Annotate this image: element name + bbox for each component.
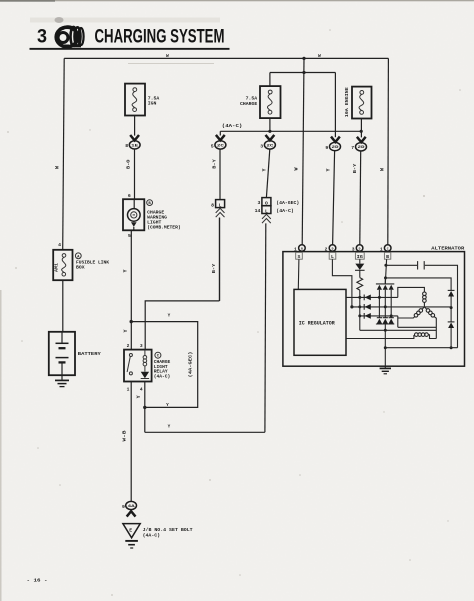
svg-text:Y: Y: [166, 403, 169, 408]
svg-text:Y: Y: [136, 395, 142, 398]
svg-text:B-Y: B-Y: [211, 264, 217, 274]
svg-text:5: 5: [128, 233, 131, 239]
svg-text:(4A-GEC): (4A-GEC): [276, 200, 299, 206]
svg-text:- 16 -: - 16 -: [27, 578, 48, 584]
svg-text:BOX: BOX: [76, 265, 85, 271]
svg-text:2C: 2C: [217, 144, 225, 148]
svg-text:(4A-GEC): (4A-GEC): [188, 351, 194, 377]
svg-text:W-B: W-B: [122, 430, 128, 441]
svg-text:B-O: B-O: [125, 159, 131, 169]
svg-text:Y: Y: [261, 168, 267, 171]
svg-text:2: 2: [127, 343, 130, 349]
svg-text:IC REGULATOR: IC REGULATOR: [299, 320, 335, 326]
svg-text:3: 3: [352, 246, 355, 252]
svg-text:W: W: [55, 166, 61, 169]
svg-text:(4A-C): (4A-C): [276, 208, 294, 214]
svg-text:4: 4: [140, 387, 143, 393]
svg-text:6: 6: [128, 193, 131, 199]
svg-text:4: 4: [58, 242, 61, 248]
svg-text:AM1: AM1: [55, 262, 59, 272]
svg-text:CHARGE: CHARGE: [240, 101, 257, 107]
svg-text:ALTERNATOR: ALTERNATOR: [431, 246, 464, 252]
svg-text:E: E: [129, 528, 132, 534]
svg-text:W: W: [294, 167, 300, 170]
svg-text:BATTERY: BATTERY: [78, 351, 101, 357]
svg-text:B: B: [301, 246, 303, 250]
svg-text:L: L: [265, 208, 268, 214]
svg-text:7: 7: [351, 145, 354, 151]
svg-text:7.5A: 7.5A: [246, 96, 258, 102]
svg-text:3: 3: [37, 27, 47, 48]
svg-text:3: 3: [260, 143, 263, 149]
svg-text:(COMB.METER): (COMB.METER): [147, 225, 181, 231]
svg-text:W: W: [379, 168, 385, 171]
svg-text:5: 5: [211, 143, 214, 149]
svg-text:9: 9: [122, 504, 125, 510]
svg-text:8: 8: [125, 143, 128, 149]
svg-text:1: 1: [127, 387, 130, 393]
svg-text:W: W: [318, 53, 321, 59]
svg-text:10A ENGINE: 10A ENGINE: [344, 87, 350, 117]
svg-text:D: D: [359, 246, 361, 250]
svg-text:2C: 2C: [266, 144, 274, 148]
svg-text:1E: 1E: [131, 144, 139, 148]
svg-text:3: 3: [140, 343, 143, 349]
svg-text:Y: Y: [168, 313, 171, 318]
svg-text:3: 3: [258, 200, 261, 206]
svg-text:Y: Y: [123, 269, 129, 272]
svg-text:Y: Y: [123, 329, 129, 332]
svg-text:L: L: [219, 202, 222, 208]
svg-text:CHARGING SYSTEM: CHARGING SYSTEM: [95, 26, 225, 48]
svg-text:IGN: IGN: [148, 100, 157, 106]
svg-text:8: 8: [211, 202, 214, 208]
svg-text:1: 1: [380, 246, 383, 252]
svg-text:(4A-C): (4A-C): [154, 374, 171, 379]
svg-text:C: C: [387, 246, 389, 250]
svg-text:J/B NO.4 SET BOLT: J/B NO.4 SET BOLT: [143, 527, 193, 533]
svg-text:Y: Y: [168, 425, 171, 430]
svg-text:1: 1: [294, 246, 297, 252]
svg-text:B-Y: B-Y: [352, 164, 358, 174]
svg-text:2: 2: [325, 246, 328, 252]
svg-text:(4A-C): (4A-C): [143, 532, 161, 538]
svg-text:2D: 2D: [358, 146, 366, 150]
svg-text:14: 14: [255, 208, 261, 214]
svg-text:(4A-C): (4A-C): [222, 124, 243, 129]
svg-text:D: D: [332, 246, 334, 250]
svg-text:9: 9: [325, 145, 328, 151]
svg-text:LIGHT: LIGHT: [147, 219, 161, 225]
svg-text:4A: 4A: [128, 505, 136, 509]
svg-text:B-Y: B-Y: [212, 159, 218, 169]
svg-text:W: W: [166, 53, 169, 59]
svg-text:Y: Y: [326, 168, 332, 171]
svg-text:2D: 2D: [332, 146, 340, 150]
